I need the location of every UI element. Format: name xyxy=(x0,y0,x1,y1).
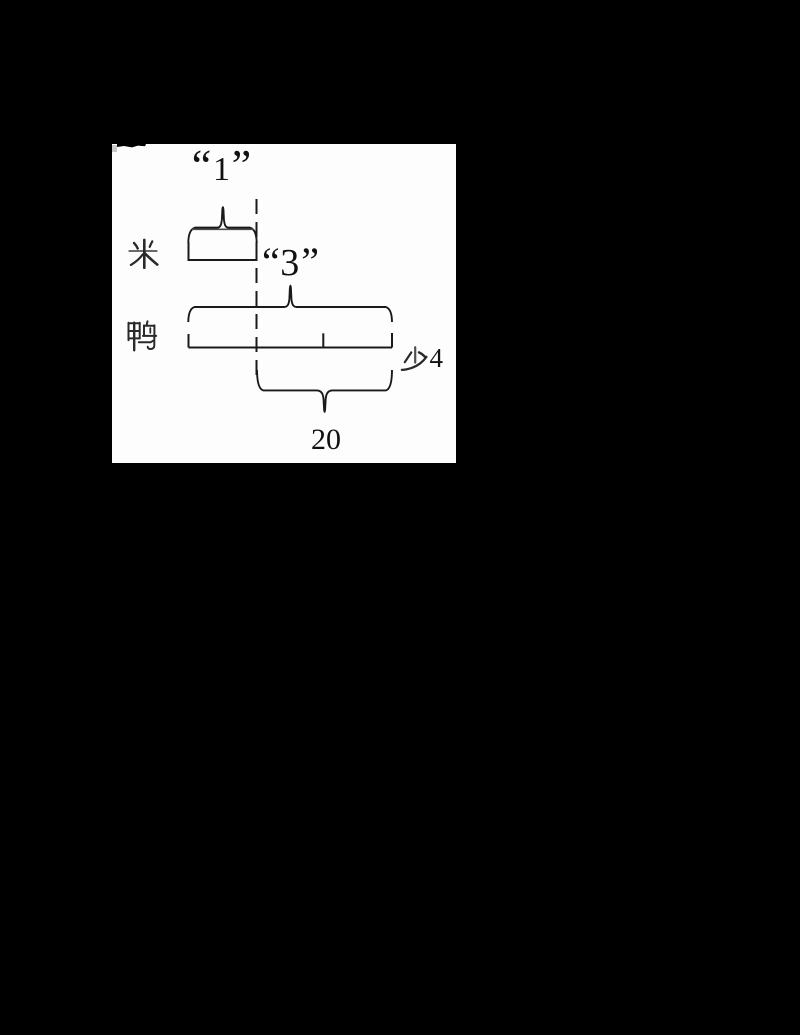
label shao-4 (less by 4) xyxy=(402,347,427,370)
dashed divider line xyxy=(256,199,258,375)
svg-text:20: 20 xyxy=(311,423,341,456)
white diagram panel xyxy=(112,144,456,463)
mi bar sides and bottom xyxy=(189,242,257,260)
character ya (duck) xyxy=(129,321,157,350)
brace over ya bar (pointing up) xyxy=(188,286,392,322)
svg-text:1: 1 xyxy=(213,151,230,188)
smudge mark top-left xyxy=(117,144,146,147)
tick mark inside ya bar xyxy=(322,333,324,347)
character mi (rice) xyxy=(129,240,157,268)
mi bar top inner edge xyxy=(192,228,254,230)
brace over mi bar (pointing up) xyxy=(188,207,256,243)
gray pixel block top-left xyxy=(112,145,117,152)
svg-text:”: ” xyxy=(232,144,252,190)
svg-text:“: “ xyxy=(192,144,212,190)
brace under segment (pointing down) xyxy=(257,370,392,412)
svg-text:”: ” xyxy=(301,239,319,284)
ya bar (bottom line with end ticks) xyxy=(189,333,393,348)
svg-text:“: “ xyxy=(262,239,280,284)
svg-text:4: 4 xyxy=(430,343,444,373)
svg-text:3: 3 xyxy=(280,242,299,284)
